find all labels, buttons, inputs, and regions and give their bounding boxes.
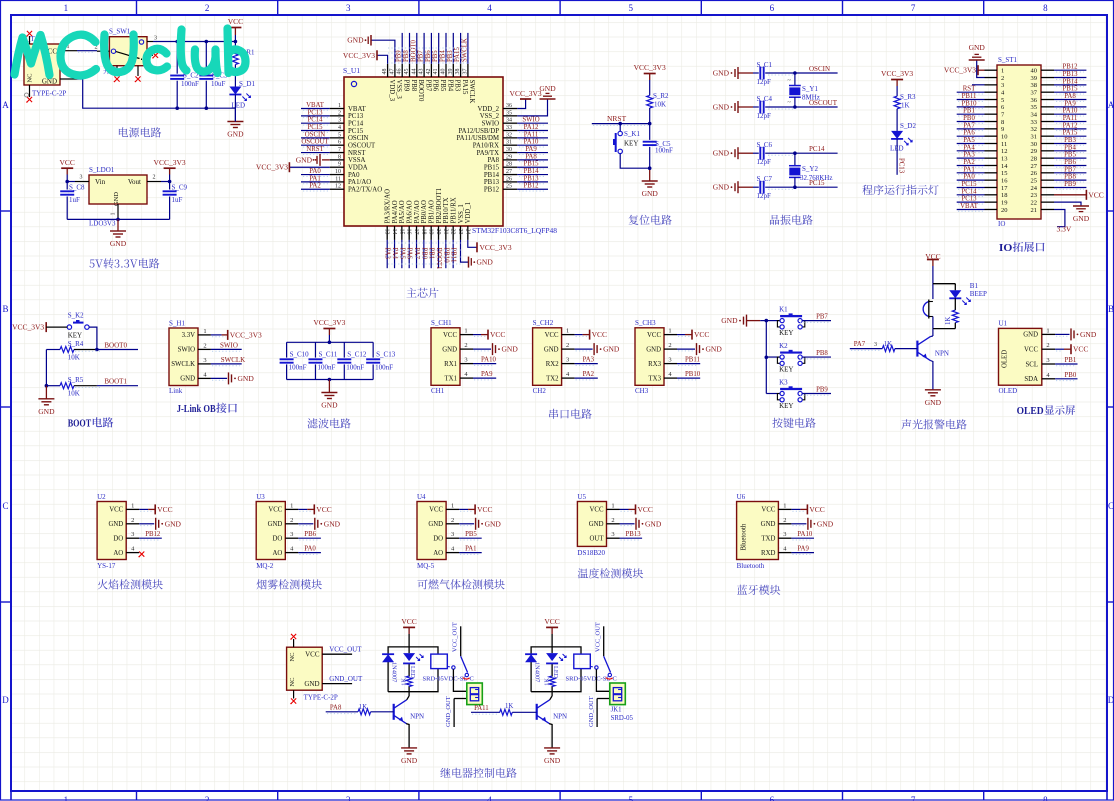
svg-text:VCC_3V3: VCC_3V3 xyxy=(12,323,44,332)
svg-text:2: 2 xyxy=(205,3,210,13)
crystal Y1 8MHz xyxy=(794,73,796,86)
svg-text:12pF: 12pF xyxy=(757,78,772,86)
svg-text:10: 10 xyxy=(335,169,341,175)
ST1 pin 23 xyxy=(1041,194,1054,196)
wire R1 to LED D1 xyxy=(234,65,236,87)
title reset circuit xyxy=(629,215,672,225)
wire and net label PA4 xyxy=(957,150,985,152)
svg-text:BOOT0: BOOT0 xyxy=(410,39,417,62)
svg-text:3: 3 xyxy=(783,531,786,538)
svg-text:26: 26 xyxy=(506,176,512,182)
svg-text:100nF: 100nF xyxy=(655,147,673,155)
wire and net label PA11 xyxy=(1054,121,1086,123)
svg-text:9: 9 xyxy=(1001,126,1004,133)
VCC_3V3 power port at U1 VDD_1 bottom xyxy=(468,240,477,247)
svg-text:PA0: PA0 xyxy=(304,546,316,553)
wire and net label PB1 xyxy=(430,240,432,268)
svg-text:PB7: PB7 xyxy=(816,314,828,321)
VCC power port U3 xyxy=(298,508,307,510)
svg-text:VCC: VCC xyxy=(429,507,443,514)
svg-text:VCC_OUT: VCC_OUT xyxy=(595,622,602,652)
U1 pin 36 VDD_2 xyxy=(503,108,517,110)
wire and net label PB0 xyxy=(423,240,425,268)
svg-text:6: 6 xyxy=(770,3,775,13)
svg-text:PA9: PA9 xyxy=(1064,100,1076,107)
ST1 pin 35 xyxy=(1041,106,1054,108)
svg-text:TYPE-C-2P: TYPE-C-2P xyxy=(304,693,338,701)
svg-text:3: 3 xyxy=(131,531,134,538)
VCC_3V3 power port H1 xyxy=(211,334,222,336)
U1 pin 10 PA0 xyxy=(330,174,344,176)
keys left rail xyxy=(765,321,767,394)
svg-text:OSCIN: OSCIN xyxy=(809,65,830,73)
svg-text:PC13: PC13 xyxy=(961,196,977,203)
svg-text:39: 39 xyxy=(1031,75,1038,82)
wire and net label PA1 xyxy=(459,552,482,554)
ST1 pin 9 xyxy=(985,128,998,130)
svg-text:30: 30 xyxy=(1031,141,1038,148)
svg-text:PB13: PB13 xyxy=(626,531,642,538)
svg-text:GND: GND xyxy=(1023,332,1038,339)
svg-text:STM32F103C8T6_LQFP48: STM32F103C8T6_LQFP48 xyxy=(472,226,557,235)
svg-text:PC13: PC13 xyxy=(897,158,904,174)
U1 pin 48 VDD_3 xyxy=(387,64,389,77)
svg-text:PA7: PA7 xyxy=(963,122,975,129)
svg-text:3: 3 xyxy=(874,342,877,348)
svg-text:7: 7 xyxy=(911,3,916,13)
svg-text:16: 16 xyxy=(406,229,412,235)
svg-text:10K: 10K xyxy=(654,101,666,109)
svg-text:29: 29 xyxy=(1031,148,1038,155)
wire and net label VBAT xyxy=(957,208,985,210)
svg-text:VCC: VCC xyxy=(490,330,505,339)
wire and net label NRST xyxy=(301,152,330,154)
svg-text:VBAT: VBAT xyxy=(306,102,325,109)
title power circuit xyxy=(119,127,161,137)
svg-text:PA1/AO: PA1/AO xyxy=(348,179,371,186)
svg-text:C: C xyxy=(2,501,8,511)
svg-text:PB8: PB8 xyxy=(1064,174,1076,181)
U1 pin 40 PB4 xyxy=(445,64,447,77)
svg-text:13: 13 xyxy=(1001,155,1008,162)
svg-text:24: 24 xyxy=(1031,185,1038,192)
LED relay xyxy=(546,653,558,661)
wire and net label PB11 xyxy=(677,363,700,365)
U2 unconnected pin cross xyxy=(139,552,144,557)
svg-text:2: 2 xyxy=(205,795,210,801)
svg-text:PB15: PB15 xyxy=(523,161,539,168)
ST1 pin 24 xyxy=(1041,186,1054,188)
svg-text:GND: GND xyxy=(1073,214,1090,223)
svg-text:VCC: VCC xyxy=(443,332,457,339)
svg-text:PB14: PB14 xyxy=(1062,78,1078,85)
svg-text:33: 33 xyxy=(506,125,512,131)
dotted grid marks top labels xyxy=(388,47,470,49)
svg-text:PA1: PA1 xyxy=(465,546,476,553)
svg-text:VCC: VCC xyxy=(638,505,653,514)
svg-text:SWIO: SWIO xyxy=(522,117,539,124)
svg-text:GND: GND xyxy=(227,130,244,139)
svg-text:LED: LED xyxy=(552,666,559,679)
svg-text:S_C8: S_C8 xyxy=(69,184,85,192)
svg-text:S_C10: S_C10 xyxy=(290,351,310,359)
wire and net label PB7 xyxy=(1054,172,1086,174)
U1 pin 21 PB10/TX xyxy=(445,226,447,240)
wire and net label PA7 xyxy=(957,128,985,130)
svg-text:21: 21 xyxy=(1031,207,1038,214)
svg-text:PB12: PB12 xyxy=(484,187,500,194)
svg-text:PA4: PA4 xyxy=(963,144,975,151)
wire and net label BOOT0 xyxy=(97,349,138,351)
svg-text:PB13: PB13 xyxy=(523,175,539,182)
svg-text:U6: U6 xyxy=(737,493,746,501)
wire and net label PB6 xyxy=(430,33,432,64)
svg-text:18: 18 xyxy=(1001,192,1008,199)
svg-text:43: 43 xyxy=(419,69,425,75)
svg-text:VCC: VCC xyxy=(761,507,775,514)
svg-text:U1: U1 xyxy=(999,320,1008,328)
title alarm circuit xyxy=(901,419,966,429)
U1 pin 16 PA6/AO xyxy=(408,226,410,240)
wire and net label PB3 xyxy=(1054,143,1086,145)
ground symbol U6 xyxy=(791,523,806,525)
svg-text:PC14: PC14 xyxy=(348,120,364,127)
svg-text:3: 3 xyxy=(80,175,83,181)
svg-text:NC: NC xyxy=(289,652,296,661)
svg-text:LED: LED xyxy=(409,666,416,679)
svg-text:DO: DO xyxy=(113,536,123,543)
svg-text:33: 33 xyxy=(1031,119,1038,126)
svg-text:SWIO: SWIO xyxy=(220,341,238,349)
svg-text:20: 20 xyxy=(435,229,441,235)
resistor 1K alarm branch xyxy=(954,298,956,310)
svg-text:S_C11: S_C11 xyxy=(318,351,337,359)
T1 pin 2 GND xyxy=(60,78,77,80)
svg-text:41: 41 xyxy=(433,69,439,75)
svg-text:RX3: RX3 xyxy=(648,361,661,368)
svg-text:VSS_3: VSS_3 xyxy=(395,80,402,100)
svg-text:PB0: PB0 xyxy=(963,115,975,122)
wire and net label PB14 xyxy=(1054,84,1086,86)
svg-text:BOOT1: BOOT1 xyxy=(104,378,127,386)
svg-text:12pF: 12pF xyxy=(757,158,772,166)
svg-text:PA10: PA10 xyxy=(797,531,812,538)
svg-text:2: 2 xyxy=(783,517,786,524)
svg-text:PB6: PB6 xyxy=(432,80,439,92)
svg-text:46: 46 xyxy=(397,69,403,75)
wire and net label PA1 xyxy=(301,181,330,183)
svg-text:OLED: OLED xyxy=(999,387,1018,395)
svg-text:A: A xyxy=(1108,100,1114,110)
svg-text:GND: GND xyxy=(713,69,730,78)
svg-text:SRD-05: SRD-05 xyxy=(611,715,634,722)
svg-text:GND: GND xyxy=(646,346,661,353)
ST1 pin 33 xyxy=(1041,121,1054,123)
ST1 pin 29 xyxy=(1041,150,1054,152)
svg-text:Vout: Vout xyxy=(128,178,141,186)
ground symbol U4 xyxy=(459,523,474,525)
svg-text:22: 22 xyxy=(450,229,456,235)
svg-text:8: 8 xyxy=(1043,3,1048,13)
svg-text:3: 3 xyxy=(203,357,206,364)
svg-text:GND: GND xyxy=(539,84,556,93)
svg-text:PA7/AO: PA7/AO xyxy=(414,200,421,223)
wire and net label PB9 xyxy=(803,393,831,395)
svg-text:AO: AO xyxy=(272,550,282,557)
wire and net label PA0 xyxy=(301,174,330,176)
ground symbol CH2 xyxy=(575,348,593,350)
U1 pin 47 VSS_3 xyxy=(394,64,396,77)
svg-text:GND: GND xyxy=(321,401,338,410)
wire and net label PA4 xyxy=(394,240,396,268)
ST1 pin 5 xyxy=(985,99,998,101)
svg-text:S_CH2: S_CH2 xyxy=(533,319,554,327)
svg-text:VCC: VCC xyxy=(647,332,661,339)
capacitor S_C7 12pF xyxy=(753,186,759,188)
T1 NC pin top with no-ERC cross xyxy=(29,36,31,44)
svg-text:D: D xyxy=(2,695,9,705)
svg-text:2: 2 xyxy=(668,342,671,349)
svg-text:SWCLK: SWCLK xyxy=(171,361,195,368)
svg-text:PB12: PB12 xyxy=(145,531,161,538)
capacitor C2 100nF xyxy=(176,42,178,74)
svg-text:GND: GND xyxy=(428,521,443,528)
svg-text:PA6: PA6 xyxy=(963,130,975,137)
svg-text:AO: AO xyxy=(433,550,443,557)
wire and net label OSCOUT xyxy=(795,106,838,108)
capacitor S_C12 100nF xyxy=(343,342,345,357)
wire and net label PA1 xyxy=(957,172,985,174)
svg-text:2: 2 xyxy=(464,342,467,349)
svg-text:39: 39 xyxy=(448,69,454,75)
capacitor C3 10uF xyxy=(205,42,207,74)
svg-text:100nF: 100nF xyxy=(317,363,335,371)
border band corner connectors xyxy=(10,791,12,801)
relay coil SRD-05VDC-SL-C xyxy=(431,654,448,669)
ST1 pin 39 xyxy=(1041,77,1054,79)
svg-text:NRST: NRST xyxy=(306,146,324,153)
svg-text:1: 1 xyxy=(203,328,206,335)
wire and net label PB0 xyxy=(1055,378,1077,380)
svg-text:3: 3 xyxy=(566,357,569,364)
ground symbol OLED xyxy=(1055,333,1069,335)
U1 pin 8 VSSA xyxy=(330,159,344,161)
emitter wire to ground alarm xyxy=(930,361,933,390)
wire and net label PA3 xyxy=(957,157,985,159)
wire R2 to NRST node xyxy=(649,108,651,124)
svg-text:PA2/TX/AO: PA2/TX/AO xyxy=(348,187,382,194)
svg-text:48: 48 xyxy=(382,69,388,75)
svg-text:S_SW1: S_SW1 xyxy=(109,28,131,36)
ST1 pin 8 xyxy=(985,121,998,123)
wire and net label PB10 xyxy=(957,106,985,108)
wire and net label PB4 xyxy=(445,33,447,64)
svg-text:PB11/RX: PB11/RX xyxy=(450,197,457,223)
U1 pin 27 PB14 xyxy=(503,174,517,176)
svg-text:100nF: 100nF xyxy=(375,363,393,371)
svg-text:3: 3 xyxy=(346,3,351,13)
svg-text:LDO3V3: LDO3V3 xyxy=(89,220,116,228)
U1 pin 9 VDDA xyxy=(330,166,344,168)
svg-text:PB6: PB6 xyxy=(425,50,432,62)
wire and net label PA10 xyxy=(1054,113,1086,115)
svg-text:VCC: VCC xyxy=(157,505,172,514)
svg-text:SWCLK: SWCLK xyxy=(468,80,475,104)
svg-text:VCC: VCC xyxy=(305,651,320,659)
svg-text:PB8: PB8 xyxy=(410,80,417,92)
wire alarm bottom branch xyxy=(933,328,955,330)
VCC power port CH3 xyxy=(677,334,685,336)
wire and rotated net label PC13 xyxy=(896,139,898,175)
svg-text:2: 2 xyxy=(1001,75,1004,82)
U1 pin 34 SWIO xyxy=(503,122,517,124)
wire and net label PA11 xyxy=(517,137,548,139)
svg-text:VCC: VCC xyxy=(1088,190,1103,199)
svg-text:3: 3 xyxy=(338,118,341,124)
title MQ-2 module xyxy=(257,579,322,589)
svg-text:S_C13: S_C13 xyxy=(376,351,396,359)
svg-text:GND: GND xyxy=(1080,330,1097,339)
wire K2 to BOOT0 node xyxy=(89,327,97,349)
svg-text:8: 8 xyxy=(338,154,341,160)
wire and net label PA0 xyxy=(957,179,985,181)
svg-text:PB13: PB13 xyxy=(1062,71,1078,78)
svg-text:S_C7: S_C7 xyxy=(757,175,773,183)
svg-text:PB5: PB5 xyxy=(439,80,446,92)
svg-text:PA10: PA10 xyxy=(481,357,496,364)
svg-text:12pF: 12pF xyxy=(757,192,772,200)
svg-text:PB4: PB4 xyxy=(446,80,453,92)
filter top rail xyxy=(287,341,374,343)
svg-text:PB11: PB11 xyxy=(962,93,977,100)
svg-text:PB6: PB6 xyxy=(304,531,316,538)
wire and net label PA6 xyxy=(408,240,410,268)
module U3 MQ-2 body xyxy=(256,502,285,560)
svg-text:10: 10 xyxy=(1001,133,1008,140)
VCC power port U6 xyxy=(791,508,800,510)
svg-text:34: 34 xyxy=(1031,111,1038,118)
base wire and net label PA11 relay2 xyxy=(471,711,500,713)
svg-text:KEY: KEY xyxy=(779,329,793,337)
U1 pin 46 PB9 xyxy=(401,64,403,77)
wire and net label PB15 xyxy=(517,166,548,168)
svg-text:PA12/USB/DP: PA12/USB/DP xyxy=(458,128,499,135)
capacitor C5 100nF xyxy=(649,124,651,140)
title filter circuit xyxy=(307,418,350,428)
svg-text:VCC_3V3: VCC_3V3 xyxy=(256,163,288,172)
svg-text:3: 3 xyxy=(611,531,614,538)
svg-text:PA0: PA0 xyxy=(963,174,975,181)
svg-text:VCC: VCC xyxy=(1073,345,1088,354)
VCC_3V3 power port ST1 pin1 xyxy=(978,69,985,71)
title keys circuit xyxy=(772,418,815,428)
svg-text:24: 24 xyxy=(464,229,470,235)
dotted grid marks bottom labels xyxy=(388,242,462,244)
wire and net label PA9 xyxy=(517,152,548,154)
svg-text:100nF: 100nF xyxy=(289,363,307,371)
svg-text:DS18B20: DS18B20 xyxy=(577,549,605,557)
ground symbol U5 xyxy=(620,523,635,525)
svg-text:PA15: PA15 xyxy=(1063,130,1078,137)
svg-text:1: 1 xyxy=(668,328,671,335)
wire and net label PB8 xyxy=(409,33,411,64)
svg-text:10K: 10K xyxy=(68,354,80,362)
svg-text:OLED: OLED xyxy=(1017,405,1044,417)
svg-text:S_C4: S_C4 xyxy=(757,95,773,103)
svg-text:GND: GND xyxy=(969,43,986,52)
T2 pin VCC with VCC_OUT label xyxy=(322,653,352,655)
svg-text:PC14: PC14 xyxy=(307,117,323,124)
header ST1 body xyxy=(997,65,1041,219)
svg-text:PB4: PB4 xyxy=(440,50,447,62)
svg-text:3: 3 xyxy=(451,531,454,538)
wire and net label PA10 xyxy=(791,537,814,539)
svg-text:S_C9: S_C9 xyxy=(172,184,188,192)
wire and net label PB6 xyxy=(298,537,321,539)
svg-text:J-Link OB: J-Link OB xyxy=(177,403,217,415)
wire and net label PA2 xyxy=(301,188,330,190)
svg-text:PA7: PA7 xyxy=(854,341,866,348)
wire D1 to GND xyxy=(234,95,236,122)
svg-text:44: 44 xyxy=(411,69,417,75)
ground symbol filter xyxy=(328,380,330,393)
svg-text:2: 2 xyxy=(1046,342,1049,349)
ST1 pin 15 xyxy=(985,172,998,174)
svg-text:VCC_3V3: VCC_3V3 xyxy=(881,69,913,78)
svg-text:12pF: 12pF xyxy=(757,112,772,120)
ST1 pin 3 xyxy=(985,84,998,86)
VCC power port ST1 pin23 xyxy=(1054,194,1086,196)
ST1 pin 6 xyxy=(985,106,998,108)
svg-text:PB5: PB5 xyxy=(432,50,439,62)
svg-text:1N4007: 1N4007 xyxy=(534,662,541,682)
wire and net label PC15 xyxy=(795,186,838,188)
ST1 pin 2 xyxy=(985,77,998,79)
svg-text:K2: K2 xyxy=(779,342,788,350)
svg-text:K3: K3 xyxy=(779,379,788,387)
ST1 pin 37 xyxy=(1041,91,1054,93)
wire and net label PC15 xyxy=(301,130,330,132)
wire and net label PB13 xyxy=(620,537,643,539)
ST1 pin 31 xyxy=(1041,135,1054,137)
LED D1 xyxy=(229,87,241,95)
header H1 body xyxy=(169,328,198,386)
svg-text:DO: DO xyxy=(433,536,443,543)
ST1 pin 40 xyxy=(1041,69,1054,71)
svg-text:32.768KHz: 32.768KHz xyxy=(800,174,832,182)
svg-text:VCC: VCC xyxy=(477,505,492,514)
capacitor S_C13 100nF xyxy=(372,342,374,357)
capacitor S_C10 100nF xyxy=(286,342,288,357)
svg-text:10K: 10K xyxy=(68,390,80,398)
svg-text:PB14: PB14 xyxy=(523,168,539,175)
svg-text:GND: GND xyxy=(485,519,502,528)
svg-text:AO: AO xyxy=(113,550,123,557)
svg-text:IO: IO xyxy=(999,242,1013,254)
VCC_3V3 power port at U1 VDDA xyxy=(289,166,329,168)
wire and net label PB8 xyxy=(1054,179,1086,181)
svg-text:PB0: PB0 xyxy=(1065,372,1077,379)
resistor R3 1K xyxy=(896,86,898,96)
wire and net label BOOT0 xyxy=(416,33,418,64)
svg-text:PA8: PA8 xyxy=(525,153,537,160)
svg-text:PB3: PB3 xyxy=(454,80,461,92)
svg-text:25: 25 xyxy=(1031,177,1038,184)
svg-text:S_CH1: S_CH1 xyxy=(431,319,452,327)
title serial circuit xyxy=(549,409,591,419)
svg-text:1: 1 xyxy=(1001,68,1004,75)
svg-text:37: 37 xyxy=(462,69,468,75)
